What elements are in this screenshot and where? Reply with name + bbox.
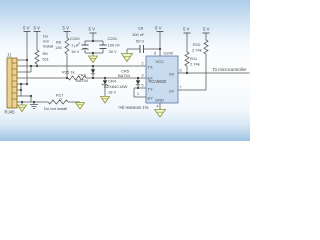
wire pin3 row	[17, 71, 31, 73]
capacitor C201	[100, 41, 107, 53]
background gradient panel	[0, 0, 250, 141]
svg-text:2: 2	[142, 62, 144, 66]
wire pin7 drop to ground row	[30, 96, 32, 102]
wire pin3 tie vertical	[30, 66, 32, 72]
svg-text:511: 511	[43, 57, 50, 62]
capacitor C8	[127, 45, 160, 54]
wire 5V to R9	[66, 32, 68, 39]
ground (connector pins)	[18, 105, 27, 112]
svg-text:VCC: VCC	[156, 59, 165, 64]
svg-text:30 V: 30 V	[109, 49, 118, 54]
wire pin6 row	[17, 89, 21, 91]
IC U200 PCA9600	[146, 56, 178, 103]
svg-text:5 V: 5 V	[89, 27, 96, 32]
svg-text:To microcontroller: To microcontroller	[213, 67, 247, 72]
wire ground row (pin8)	[17, 101, 48, 103]
wire SY row	[178, 89, 206, 91]
svg-text:C201: C201	[108, 36, 118, 41]
wire EX row to IC	[86, 77, 146, 79]
wire cap node top row	[85, 40, 103, 42]
svg-text:SX: SX	[169, 72, 175, 77]
svg-text:8: 8	[154, 52, 156, 56]
svg-text:RJ45: RJ45	[5, 110, 16, 115]
zener CR4 BZX84C18W	[102, 77, 109, 96]
svg-text:5 V: 5 V	[34, 26, 41, 31]
svg-text:*All resistors 1%: *All resistors 1%	[118, 105, 149, 110]
resistor R8 (do not install)	[35, 50, 39, 64]
svg-text:5 V: 5 V	[183, 27, 190, 32]
svg-text:18 V: 18 V	[108, 90, 117, 95]
svg-text:16 V: 16 V	[71, 49, 80, 54]
wire SX row	[178, 72, 250, 74]
svg-text:CR4: CR4	[108, 79, 117, 84]
chassis ground (shield)	[30, 102, 38, 109]
svg-text:TX: TX	[148, 65, 153, 70]
svg-text:130: 130	[55, 45, 62, 50]
wire EX row (pin4)	[17, 77, 68, 79]
svg-text:6: 6	[180, 69, 182, 73]
ground (C8)	[122, 54, 133, 62]
svg-text:5 V: 5 V	[203, 27, 210, 32]
svg-text:5 V: 5 V	[155, 26, 162, 31]
svg-text:100 nF: 100 nF	[132, 32, 145, 37]
node dot R9/EX	[66, 77, 68, 79]
wire 5V to R8	[36, 32, 38, 51]
wire TX row (pin2)	[17, 65, 146, 67]
node dots connector	[20, 59, 38, 103]
wire GND pin	[159, 103, 161, 109]
svg-text:BAT54: BAT54	[76, 78, 89, 83]
svg-text:Do not install: Do not install	[44, 106, 67, 111]
svg-text:TY: TY	[148, 87, 153, 92]
svg-text:R10: R10	[193, 42, 201, 47]
svg-text:EY: EY	[148, 96, 154, 101]
svg-text:2.74k: 2.74k	[192, 48, 202, 53]
svg-text:50 V: 50 V	[136, 39, 145, 44]
connector J1 (RJ45) body	[7, 58, 17, 108]
ground (R17 right)	[76, 103, 85, 110]
svg-text:BAT54: BAT54	[118, 73, 131, 78]
wire pin5 row	[17, 83, 27, 85]
svg-text:5: 5	[142, 84, 144, 88]
diode CR5 BAT54	[136, 77, 140, 89]
svg-text:BZX84C18W: BZX84C18W	[104, 84, 128, 89]
node dots capacitor rails	[92, 40, 94, 54]
svg-text:5 V: 5 V	[23, 26, 30, 31]
svg-text:C8: C8	[138, 26, 144, 31]
svg-text:GND: GND	[155, 98, 164, 103]
resistor R11	[186, 33, 188, 52]
wire ground tie vertical	[20, 84, 22, 96]
wire TY/EY tie bracket	[134, 87, 146, 89]
wire 5V column A	[26, 32, 28, 85]
svg-text:R8: R8	[43, 51, 49, 56]
ground (CR4)	[101, 97, 110, 104]
ground (U200)	[155, 110, 166, 118]
svg-text:4: 4	[157, 105, 159, 109]
svg-text:3: 3	[142, 74, 144, 78]
resistor R10	[205, 33, 207, 40]
svg-text:7: 7	[180, 86, 182, 90]
svg-text:100 nF: 100 nF	[108, 43, 121, 48]
capacitor C200	[82, 41, 89, 53]
svg-text:R11: R11	[190, 56, 198, 61]
svg-text:1: 1	[137, 92, 139, 96]
diode CR3 BAT54	[91, 65, 95, 79]
svg-text:1 µF: 1 µF	[71, 43, 80, 48]
svg-text:install: install	[43, 44, 53, 49]
svg-text:5 V: 5 V	[63, 26, 70, 31]
wire pin1 row	[17, 59, 27, 61]
wire 5V to cap node	[92, 33, 94, 41]
svg-text:2.74k: 2.74k	[190, 62, 200, 67]
wire VCC column	[159, 32, 161, 57]
svg-text:U200: U200	[164, 51, 174, 56]
svg-text:R15 1k: R15 1k	[62, 70, 75, 75]
svg-text:J1: J1	[7, 53, 12, 58]
ground (caps)	[89, 56, 98, 63]
node VCC/C8 junction	[159, 48, 161, 50]
svg-text:SY: SY	[169, 89, 175, 94]
resistor R9	[65, 38, 69, 54]
svg-text:R9: R9	[56, 40, 62, 45]
wire pin7 row	[17, 95, 31, 97]
svg-text:CR3: CR3	[78, 73, 87, 78]
svg-text:PCA9600: PCA9600	[149, 79, 167, 84]
wire cap bottom row	[85, 52, 103, 54]
